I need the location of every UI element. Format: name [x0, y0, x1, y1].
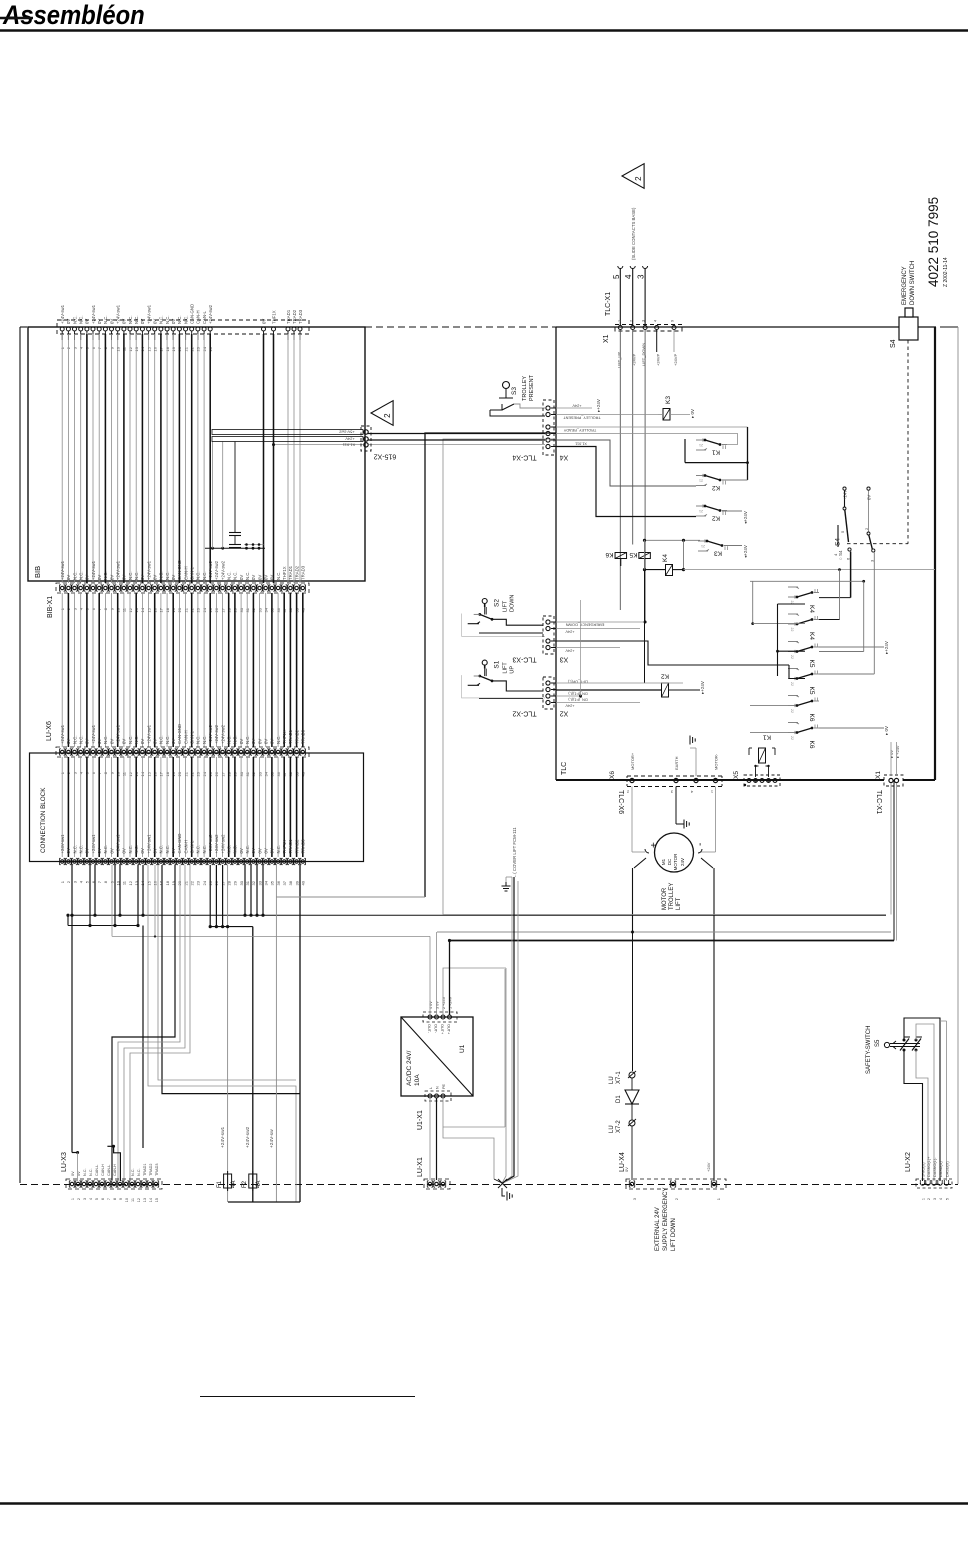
svg-text:MOTOR-: MOTOR-	[714, 753, 719, 770]
svg-text:N.C.: N.C.	[202, 845, 207, 854]
svg-text:OUT+: OUT+	[447, 1024, 451, 1035]
svg-text:0V: 0V	[257, 848, 262, 853]
svg-text:N.C.: N.C.	[177, 315, 182, 324]
svg-text:N.C.: N.C.	[165, 735, 170, 744]
svg-text:0V: 0V	[97, 739, 102, 744]
svg-text:0V: 0V	[153, 848, 158, 853]
svg-text:▸ 0V: ▸ 0V	[690, 409, 695, 418]
svg-text:TROLLEY: TROLLEY	[669, 883, 675, 910]
svg-text:TROLLEY: TROLLEY	[522, 376, 528, 401]
svg-text:TRAD1: TRAD1	[288, 729, 293, 744]
svg-text:+24V-sw1: +24V-sw1	[116, 304, 121, 324]
svg-text:9: 9	[671, 320, 675, 322]
svg-text:0V: 0V	[140, 848, 145, 853]
svg-text:S4: S4	[835, 538, 842, 546]
svg-text:TRAD3: TRAD3	[155, 1164, 159, 1176]
svg-text:DASNO(1)+: DASNO(1)+	[927, 1156, 931, 1177]
svg-text:5: 5	[612, 274, 621, 279]
svg-text:CAN-L: CAN-L	[190, 566, 195, 580]
svg-text:+24V-sw2: +24V-sw2	[220, 724, 225, 744]
svg-text:40: 40	[301, 880, 306, 885]
svg-text:0V: 0V	[97, 319, 102, 324]
svg-text:0V: 0V	[171, 848, 176, 853]
svg-text:N.C.: N.C.	[245, 735, 250, 744]
svg-text:+24V-sw1: +24V-sw1	[60, 304, 65, 324]
svg-text:N.C.: N.C.	[128, 571, 133, 580]
svg-text:CAN-H: CAN-H	[101, 1164, 105, 1176]
svg-text:1: 1	[921, 1198, 925, 1200]
svg-text:CAN-L: CAN-L	[95, 1165, 99, 1176]
svg-text:21: 21	[701, 544, 705, 548]
svg-text:UP: UP	[510, 666, 516, 674]
svg-text:N.C.: N.C.	[134, 735, 139, 744]
svg-text:SAFETY-SWITCH: SAFETY-SWITCH	[866, 1026, 872, 1074]
svg-text:EARTH: EARTH	[674, 756, 679, 770]
svg-text:0V: 0V	[109, 739, 114, 744]
svg-text:K4: K4	[808, 605, 815, 613]
svg-text:◂+24V: ◂+24V	[743, 545, 748, 558]
svg-text:DASU(X): DASU(X)	[939, 1161, 943, 1177]
svg-text:4A: 4A	[256, 1181, 262, 1188]
svg-text:K3: K3	[714, 550, 722, 557]
svg-text:N.C.: N.C.	[131, 1168, 135, 1176]
svg-text:38: 38	[288, 880, 293, 885]
svg-text:TRAD2: TRAD2	[294, 729, 299, 744]
svg-text:0V: 0V	[239, 575, 244, 580]
svg-text:K5: K5	[629, 551, 637, 558]
svg-text:10A: 10A	[414, 1074, 421, 1086]
svg-text:LIFT: LIFT	[503, 600, 509, 612]
svg-text:+24V-sw2: +24V-sw2	[208, 560, 213, 580]
svg-text:N.C.: N.C.	[72, 315, 77, 324]
svg-text:N.C.: N.C.	[202, 571, 207, 580]
svg-text:TRAD1: TRAD1	[288, 565, 293, 580]
svg-text:CAN-H: CAN-H	[183, 566, 188, 580]
svg-text:0V: 0V	[109, 319, 114, 324]
svg-text:8: 8	[113, 1198, 117, 1200]
svg-text:0V: 0V	[140, 575, 145, 580]
svg-text:0V: 0V	[66, 739, 71, 744]
svg-text:U1-X1: U1-X1	[417, 1110, 424, 1130]
svg-text:TRAD2: TRAD2	[294, 839, 299, 854]
svg-text:21: 21	[699, 478, 703, 482]
svg-text:SUPPLY EMERGENCY: SUPPLY EMERGENCY	[663, 1188, 669, 1251]
svg-text:K1: K1	[712, 449, 720, 456]
svg-text:21: 21	[699, 509, 703, 513]
svg-text:▸ 0V: ▸ 0V	[889, 750, 894, 758]
svg-text:(SLIDE CONTACTS BASE): (SLIDE CONTACTS BASE)	[631, 207, 636, 260]
svg-text:THF1X: THF1X	[282, 730, 287, 744]
svg-text:N.C.: N.C.	[128, 315, 133, 324]
svg-text:+24V: +24V	[706, 1162, 711, 1172]
svg-text:N.C.: N.C.	[159, 735, 164, 744]
svg-text:N.C.: N.C.	[83, 1168, 87, 1176]
svg-text:0V: 0V	[85, 848, 90, 853]
svg-text:13: 13	[143, 1198, 147, 1202]
svg-text:X1: X1	[603, 334, 610, 343]
svg-text:+24V-sw2: +24V-sw2	[208, 834, 213, 854]
svg-text:0V: 0V	[66, 319, 71, 324]
svg-text:CAN-H: CAN-H	[183, 840, 188, 854]
svg-text:0V: 0V	[66, 848, 71, 853]
svg-text:K3: K3	[665, 396, 672, 404]
svg-text:0V: 0V	[264, 848, 269, 853]
svg-text:TRAD1: TRAD1	[143, 1164, 147, 1176]
svg-text:0V: 0V	[153, 739, 158, 744]
svg-text:▸+24V: ▸+24V	[596, 399, 601, 412]
svg-text:3: 3	[641, 320, 645, 322]
svg-text:MOTOR+: MOTOR+	[630, 752, 635, 770]
svg-text:S5: S5	[875, 1039, 881, 1047]
svg-text:TRAD1: TRAD1	[288, 839, 293, 854]
svg-text:+24V-sw2: +24V-sw2	[208, 304, 213, 324]
svg-text:N.C.: N.C.	[183, 315, 188, 324]
svg-text:18: 18	[165, 880, 170, 885]
svg-text:N.C.: N.C.	[128, 845, 133, 854]
svg-text:0V: 0V	[122, 319, 127, 324]
svg-text:N.C.: N.C.	[134, 845, 139, 854]
svg-text:CAN-GND: CAN-GND	[190, 304, 195, 324]
svg-text:N.C.: N.C.	[103, 845, 108, 854]
svg-text:+24V-sw1: +24V-sw1	[60, 560, 65, 580]
svg-text:CAN-H: CAN-H	[113, 1164, 117, 1176]
svg-text:+24V-sw1: +24V-sw1	[116, 724, 121, 744]
svg-text:0V: 0V	[122, 739, 127, 744]
svg-text:0V: 0V	[270, 848, 275, 853]
svg-text:31: 31	[245, 880, 250, 885]
svg-text:LU: LU	[609, 1125, 615, 1133]
svg-text:TRAD3: TRAD3	[301, 729, 306, 744]
svg-text:+: +	[649, 842, 660, 848]
svg-text:0V: 0V	[85, 739, 90, 744]
svg-text:+24V-sw2: +24V-sw2	[214, 834, 219, 854]
svg-text:X6: X6	[609, 771, 616, 779]
svg-text:CONNECTION BLOCK: CONNECTION BLOCK	[40, 787, 47, 853]
svg-text:+24V: +24V	[572, 404, 581, 408]
svg-text:F1: F1	[217, 1180, 223, 1188]
svg-text:0V: 0V	[261, 319, 266, 324]
svg-text:17: 17	[159, 880, 164, 885]
svg-text:37: 37	[282, 880, 287, 885]
svg-text:DOWN: DOWN	[510, 595, 516, 612]
svg-text:TLC-X1: TLC-X1	[875, 790, 882, 814]
svg-text:33: 33	[257, 880, 262, 885]
svg-text:X3: X3	[560, 655, 569, 662]
svg-text:TRAD3: TRAD3	[301, 565, 306, 580]
svg-text:N.C.: N.C.	[196, 845, 201, 854]
svg-text:5: 5	[945, 1198, 949, 1200]
svg-text:L: L	[429, 1087, 433, 1089]
svg-text:K2: K2	[661, 673, 669, 680]
svg-text:0V: 0V	[109, 848, 114, 853]
svg-text:2: 2	[634, 176, 643, 181]
svg-text:+24VP: +24VP	[656, 354, 661, 366]
svg-text:S1: S1	[494, 660, 501, 668]
svg-text:15: 15	[155, 1198, 159, 1202]
svg-text:LIFT: LIFT	[676, 897, 682, 910]
svg-text:0V: 0V	[171, 739, 176, 744]
svg-text:TRAD3: TRAD3	[298, 309, 303, 324]
svg-text:N.C.: N.C.	[79, 845, 84, 854]
svg-text:X1.011: X1.011	[575, 442, 587, 446]
svg-text:+24V-sw1: +24V-sw1	[91, 304, 96, 324]
svg-text:+24V-sw1: +24V-sw1	[220, 1126, 226, 1148]
svg-text:N.C.: N.C.	[227, 735, 232, 744]
svg-text:M1: M1	[661, 858, 666, 865]
svg-text:4: 4	[89, 1198, 93, 1200]
svg-text:D1: D1	[616, 1095, 622, 1103]
svg-text:+24V-sw1: +24V-sw1	[146, 724, 151, 744]
svg-text:K6: K6	[808, 714, 815, 722]
svg-text:DC: DC	[667, 858, 672, 865]
svg-text:X1: X1	[875, 771, 882, 779]
svg-text:+24V-sw2: +24V-sw2	[220, 560, 225, 580]
svg-text:4A: 4A	[231, 1181, 237, 1188]
svg-text:21: 21	[699, 443, 703, 447]
svg-text:N.C.: N.C.	[245, 845, 250, 854]
svg-text:N.C.: N.C.	[233, 735, 238, 744]
svg-text:CAN-GND: CAN-GND	[177, 560, 182, 580]
svg-text:LU-X4: LU-X4	[619, 1152, 626, 1172]
svg-text:MOTOR: MOTOR	[673, 853, 678, 870]
svg-text:+24V: +24V	[565, 704, 574, 708]
svg-text:0V: 0V	[140, 319, 145, 324]
svg-text:K4: K4	[662, 554, 669, 562]
svg-text:N.C.: N.C.	[196, 571, 201, 580]
svg-text:N.C.: N.C.	[159, 845, 164, 854]
svg-text:0V: 0V	[264, 739, 269, 744]
svg-text:THF1X: THF1X	[282, 566, 287, 580]
svg-text:+24V-sw1: +24V-sw1	[116, 560, 121, 580]
svg-text:N.C.: N.C.	[79, 571, 84, 580]
svg-text:CAN-H: CAN-H	[183, 730, 188, 744]
svg-text:X2: X2	[560, 709, 569, 716]
svg-text:BIB: BIB	[33, 566, 42, 578]
svg-text:N.C.: N.C.	[103, 735, 108, 744]
svg-text:N.C.: N.C.	[72, 845, 77, 854]
svg-text:N.C.: N.C.	[276, 845, 281, 854]
svg-text:EMERGENCY: EMERGENCY	[902, 266, 908, 305]
svg-text:MOTOR: MOTOR	[662, 887, 668, 910]
svg-text:TRAD2: TRAD2	[292, 309, 297, 324]
svg-text:0V: 0V	[97, 848, 102, 853]
svg-text:←( COVER LIFT FCM-111: ←( COVER LIFT FCM-111	[512, 827, 517, 878]
svg-text:N.C.: N.C.	[72, 571, 77, 580]
svg-text:DN_(F1)(L): DN_(F1)(L)	[568, 698, 588, 702]
svg-text:K6: K6	[808, 741, 815, 749]
svg-text:OUT-: OUT-	[427, 1024, 431, 1034]
svg-text:4: 4	[939, 1198, 943, 1200]
svg-text:0V: 0V	[153, 319, 158, 324]
svg-text:N.C.: N.C.	[276, 571, 281, 580]
svg-text:N.C.: N.C.	[79, 315, 84, 324]
svg-text:LU-X6: LU-X6	[46, 721, 53, 741]
svg-text:15: 15	[146, 880, 151, 885]
svg-text:4: 4	[624, 274, 633, 279]
svg-text:3: 3	[933, 1198, 937, 1200]
svg-text:+24V-sw1: +24V-sw1	[116, 834, 121, 854]
svg-text:0V: 0V	[270, 575, 275, 580]
svg-text:DOWN SWITCH: DOWN SWITCH	[910, 261, 916, 305]
svg-text:+24V: +24V	[565, 630, 574, 634]
svg-text:TLC-X2: TLC-X2	[512, 709, 536, 716]
svg-text:OUT-: OUT-	[434, 1024, 438, 1034]
svg-text:S3: S3	[511, 387, 518, 395]
svg-text:LIFT DOWN: LIFT DOWN	[671, 1218, 677, 1251]
svg-text:+24V-sw2: +24V-sw2	[208, 724, 213, 744]
svg-text:7: 7	[107, 1198, 111, 1200]
svg-text:+24V-sw1: +24V-sw1	[91, 560, 96, 580]
svg-text:DASU(X): DASU(X)	[945, 1161, 949, 1177]
svg-text:24: 24	[202, 880, 207, 885]
svg-text:K1: K1	[763, 734, 771, 741]
svg-text:X4: X4	[560, 453, 569, 460]
svg-text:TRAD2: TRAD2	[294, 565, 299, 580]
svg-text:0V: 0V	[171, 319, 176, 324]
svg-text:N.C.: N.C.	[89, 1168, 93, 1176]
svg-text:615-X2: 615-X2	[374, 452, 397, 459]
svg-text:12: 12	[128, 880, 133, 885]
svg-text:34: 34	[264, 880, 269, 885]
svg-text:EXTERNAL 24V: EXTERNAL 24V	[655, 1207, 661, 1251]
svg-text:LU-X3: LU-X3	[61, 1152, 68, 1172]
svg-text:CAN-L: CAN-L	[107, 1165, 111, 1176]
svg-text:▸+24V: ▸+24V	[884, 641, 889, 654]
svg-text:TLC-X1: TLC-X1	[605, 292, 612, 316]
svg-text:+24V-sw1: +24V-sw1	[60, 834, 65, 854]
svg-text:0V: 0V	[239, 848, 244, 853]
svg-text:CAN-GND: CAN-GND	[177, 724, 182, 744]
svg-text:U1: U1	[459, 1044, 466, 1053]
svg-text:○ S4: ○ S4	[838, 550, 843, 560]
svg-text:S4: S4	[890, 339, 897, 348]
svg-text:LU-X1: LU-X1	[417, 1157, 424, 1177]
svg-text:N.C.: N.C.	[137, 1168, 141, 1176]
svg-text:K5: K5	[808, 660, 815, 668]
svg-text:K2: K2	[712, 484, 720, 491]
svg-text:+24V-sw2: +24V-sw2	[214, 724, 219, 744]
svg-text:-: -	[695, 843, 706, 846]
svg-text:35: 35	[270, 880, 275, 885]
svg-text:+24V-sw: +24V-sw	[269, 1129, 275, 1148]
svg-text:EMERGENCY_DOWN: EMERGENCY_DOWN	[565, 623, 604, 627]
svg-text:K2: K2	[712, 515, 720, 522]
svg-text:4: 4	[653, 320, 657, 322]
svg-text:14: 14	[149, 1198, 153, 1202]
svg-text:2: 2	[927, 1198, 931, 1200]
svg-text:◂+24V: ◂+24V	[743, 511, 748, 524]
svg-text:▸ +24V: ▸ +24V	[895, 745, 900, 758]
svg-text:N.C.: N.C.	[165, 571, 170, 580]
svg-text:DN_(F1)(L): DN_(F1)(L)	[568, 692, 588, 696]
svg-text:+24V-sw1: +24V-sw1	[146, 304, 151, 324]
svg-text:29: 29	[233, 880, 238, 885]
svg-text:2: 2	[77, 1198, 81, 1200]
svg-text:+24V-sw2: +24V-sw2	[214, 560, 219, 580]
svg-text:21: 21	[183, 880, 188, 885]
svg-text:N.C.: N.C.	[128, 735, 133, 744]
svg-text:0V: 0V	[122, 575, 127, 580]
svg-text:OUT+: OUT+	[440, 1024, 444, 1035]
svg-text:K4: K4	[808, 632, 815, 640]
svg-text:PRESENT: PRESENT	[529, 374, 535, 401]
svg-text:N.C.: N.C.	[196, 735, 201, 744]
svg-text:+24V: +24V	[843, 490, 848, 500]
svg-text:X7-2: X7-2	[616, 1120, 622, 1133]
svg-text:F2: F2	[242, 1180, 248, 1188]
svg-text:N.C.: N.C.	[233, 571, 238, 580]
svg-text:0V: 0V	[867, 495, 872, 500]
svg-text:▸ 0V: ▸ 0V	[884, 726, 889, 735]
svg-text:0V: 0V	[257, 739, 262, 744]
svg-text:+24V-sw1: +24V-sw1	[146, 834, 151, 854]
svg-text:0V: 0V	[264, 575, 269, 580]
svg-text:+24V-sw1: +24V-sw1	[91, 834, 96, 854]
svg-text:AC/DC 24V/: AC/DC 24V/	[406, 1050, 413, 1086]
svg-text:12: 12	[137, 1198, 141, 1202]
svg-text:0V: 0V	[251, 848, 256, 853]
svg-text:N.C.: N.C.	[245, 571, 250, 580]
svg-text:THF1X: THF1X	[282, 840, 287, 854]
svg-text:N.C.: N.C.	[134, 315, 139, 324]
svg-text:0V: 0V	[140, 739, 145, 744]
svg-text:0V: 0V	[122, 848, 127, 853]
svg-text:22: 22	[790, 682, 794, 686]
svg-text:22: 22	[790, 736, 794, 740]
svg-text:0V: 0V	[71, 1171, 75, 1176]
svg-text:THF1X: THF1X	[271, 310, 276, 324]
svg-text:32: 32	[251, 880, 256, 885]
svg-text:N.C.: N.C.	[72, 735, 77, 744]
svg-text:5: 5	[95, 1198, 99, 1200]
svg-text:TROLLEY_READY: TROLLEY_READY	[563, 428, 596, 432]
svg-text:0V: 0V	[66, 575, 71, 580]
svg-text:K6: K6	[605, 551, 613, 558]
svg-text:0V: 0V	[270, 739, 275, 744]
svg-text:TRAD1: TRAD1	[286, 309, 291, 324]
svg-text:22: 22	[790, 709, 794, 713]
svg-text:1: 1	[71, 1198, 75, 1200]
svg-text:0V: 0V	[171, 575, 176, 580]
svg-text:+5V-sw2: +5V-sw2	[338, 429, 354, 434]
svg-text:CAN-L: CAN-L	[190, 840, 195, 854]
svg-text:22: 22	[790, 628, 794, 632]
svg-text:N.C.: N.C.	[227, 845, 232, 854]
svg-text:CAN-H: CAN-H	[196, 310, 201, 324]
svg-text:DASNO(1)-: DASNO(1)-	[933, 1157, 937, 1177]
svg-text:2: 2	[629, 320, 633, 322]
svg-text:N.C.: N.C.	[103, 315, 108, 324]
svg-text:22: 22	[790, 655, 794, 659]
svg-text:0V: 0V	[153, 575, 158, 580]
svg-text:N.C.: N.C.	[165, 315, 170, 324]
svg-text:4022 510 7995: 4022 510 7995	[926, 197, 941, 287]
svg-text:N.C.: N.C.	[159, 571, 164, 580]
svg-text:24V: 24V	[680, 858, 685, 866]
svg-text:TLC-X6: TLC-X6	[617, 790, 624, 814]
svg-text:+24V: +24V	[345, 436, 355, 441]
svg-text:0V: 0V	[251, 739, 256, 744]
svg-text:TLC: TLC	[561, 762, 568, 775]
svg-text:N.C.: N.C.	[233, 845, 238, 854]
svg-text:6: 6	[101, 1198, 105, 1200]
svg-text:TROLLEY_PRESENT: TROLLEY_PRESENT	[563, 416, 601, 420]
svg-text:N.C.: N.C.	[103, 571, 108, 580]
svg-text:+24V: +24V	[565, 649, 574, 653]
svg-text:N: N	[436, 1086, 440, 1089]
svg-text:3: 3	[83, 1198, 87, 1200]
svg-text:N.C.: N.C.	[159, 315, 164, 324]
